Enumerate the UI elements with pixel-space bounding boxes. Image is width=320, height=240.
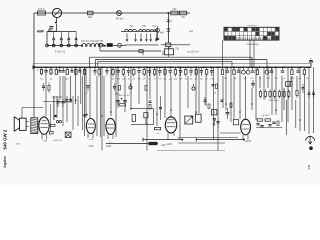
capacitor extra x303 — [302, 87, 305, 89]
IF tube V2 grid lines — [88, 123, 95, 125]
table bottom tick row — [224, 37, 226, 39]
svg-text:TΩ: TΩ — [200, 79, 203, 81]
wire tap collector line — [125, 44, 159, 46]
resistor R5 with capacitor under bus left — [41, 67, 43, 69]
wire coil taps down with arrows — [126, 34, 128, 41]
svg-text:40Ω: 40Ω — [173, 79, 177, 81]
capacitor extra smoothing a — [257, 123, 260, 125]
trimmer capacitor circle — [118, 44, 122, 48]
wire lower tuning rail — [100, 50, 161, 52]
small circle contact pair — [56, 121, 58, 123]
volume potentiometer box with arrow — [185, 116, 193, 124]
component group right of table under bus — [222, 67, 224, 70]
resistor R8b box under bus — [83, 67, 85, 69]
junction dot far bottom right — [309, 146, 313, 150]
loudspeaker terminal detail — [26, 120, 29, 122]
switch box on lower rail — [139, 50, 143, 53]
wire drops from lower rail to bus — [142, 51, 144, 55]
svg-text:cw: cw — [109, 141, 112, 143]
component box B right — [286, 82, 291, 87]
wire nested rail 3 — [98, 61, 232, 63]
loudspeaker magnet body — [20, 118, 27, 130]
wire oscillator coil rail — [121, 30, 157, 32]
svg-text:ca 120 mA: ca 120 mA — [187, 51, 199, 54]
svg-text:ωω4ωε•μ: ωω4ωε•μ — [247, 25, 257, 27]
IF tube V2 envelope — [86, 119, 95, 134]
wire speaker top connections — [22, 108, 43, 119]
component box with X bottom — [65, 132, 71, 137]
svg-text:cw83: cw83 — [166, 143, 172, 146]
connector box on lower heater run — [149, 142, 157, 145]
paper background — [0, 0, 320, 185]
capacitor in coupling network — [144, 113, 148, 118]
resistor extra smoothing — [277, 121, 279, 125]
wire top-left vertical from mains input down to bus — [33, 13, 35, 68]
wires right of output tube — [50, 104, 52, 131]
svg-text:TW: TW — [158, 79, 161, 81]
switch contact upper — [50, 26, 54, 28]
table feed wires down to bus — [249, 40, 251, 67]
wire network bottom — [131, 123, 154, 125]
resistor R8 box under bus — [75, 67, 77, 69]
detector tube V3 envelope — [106, 118, 115, 134]
capacitor C7c under bus — [71, 67, 73, 70]
wire faint long rail — [33, 63, 311, 65]
coil L4 humps group 2 — [139, 29, 150, 31]
wire lamp stem down — [56, 18, 58, 23]
resistor row lower right — [260, 90, 262, 92]
resistor R-mains 420 on top line — [179, 11, 186, 15]
svg-text:0,5 A: 0,5 A — [38, 7, 44, 11]
svg-text:HF w/e: HF w/e — [116, 18, 124, 21]
lamp dial indicator circle on top line — [52, 8, 61, 17]
valve data table grid top right — [224, 27, 279, 40]
band switch arm 2 with arrow — [60, 39, 62, 46]
capacitor pair right edge — [308, 90, 310, 98]
second row cluster b — [129, 86, 132, 89]
fuse Si 0,5A on top line — [38, 11, 46, 15]
wire band selector top rail — [47, 31, 76, 33]
capacitor C right mid — [251, 83, 255, 85]
wire trimmer to tuning line — [122, 44, 127, 46]
junction dots tube row — [101, 115, 103, 117]
resistor horizontal left of IF tube — [50, 124, 55, 126]
mains aerial symbol right end of bus — [310, 60, 312, 67]
coil L5 humps group 3 — [150, 30, 157, 32]
wire band chain horizontal — [47, 45, 82, 47]
svg-text:Ω: Ω — [37, 69, 39, 72]
electrolytic capacitor plus mark — [168, 19, 170, 21]
wire feed down to speaker transformer — [33, 67, 35, 117]
output tube V1 envelope — [39, 117, 49, 134]
component small above right — [212, 110, 217, 115]
svg-text:340: 340 — [307, 164, 311, 169]
wire top horizontal mains line — [34, 12, 190, 14]
coil L2 ferrite core filled block — [107, 43, 113, 47]
rectifier tube V5 plates — [242, 124, 249, 126]
variable capacitor C-var circle left — [99, 43, 103, 47]
antenna coupling capacitor on top line — [88, 11, 94, 15]
resistor R6 pair under bus — [50, 67, 52, 69]
wire vertical x160.5 with capacitor — [160, 96, 162, 120]
capacitor tuning gang plates — [156, 37, 159, 39]
detector tube V3 pins — [107, 134, 109, 139]
AF tube V4 pins — [167, 133, 169, 140]
grid resistor horizontal small — [66, 99, 72, 101]
svg-text:4kΩ: 4kΩ — [88, 16, 93, 19]
svg-text:GwB: GwB — [106, 145, 112, 148]
band switch arm 1 with arrow — [53, 39, 55, 46]
second row cluster d — [192, 87, 195, 90]
svg-text:540 GW 2: 540 GW 2 — [2, 129, 7, 149]
resistor single x297 — [296, 88, 298, 91]
capacitor block 2 left of rectifier — [233, 120, 238, 125]
output tube V1 cathode pins — [41, 134, 43, 140]
svg-text:+C: +C — [283, 78, 286, 80]
output tube V1 grid lines — [41, 123, 48, 125]
junction dot after coil chain — [104, 45, 106, 47]
capacitor C7 under bus — [59, 67, 61, 70]
svg-text:4 Tf: 4 Tf — [16, 144, 20, 146]
resistor right of pot — [195, 114, 201, 122]
capacitors above detector tube — [116, 100, 119, 102]
svg-text:TW: TW — [210, 79, 213, 81]
capacitor C5 under bus left — [45, 67, 47, 70]
long vertical wires from bus into stage area — [45, 76, 47, 116]
band switch contact circle 3 — [67, 44, 70, 47]
capacitor second-row left a — [42, 85, 45, 87]
AF tube V4 envelope — [165, 117, 176, 133]
junction blob a — [54, 115, 56, 117]
IF tube V2 pins — [87, 133, 89, 138]
band switch arm 3 with arrow — [68, 39, 70, 46]
svg-text:AMF: AMF — [37, 29, 45, 33]
wire from dropper area down to bus — [167, 47, 169, 58]
component comb row under main bus — [112, 67, 114, 69]
components on vertical left of AF tube — [149, 100, 152, 102]
wire rail1 right corner down — [251, 57, 253, 67]
resistor R-mains 240 on top line — [171, 11, 178, 15]
capacitors right cluster before rectifier — [213, 118, 216, 120]
detector tube V3 grid lines — [107, 123, 114, 125]
capacitor C7b under bus — [62, 67, 64, 70]
junction dot top line right — [167, 12, 169, 14]
wire tube D to rectifier heater link — [178, 137, 238, 139]
wire transformer to output tube — [38, 121, 40, 123]
svg-text:400Ω 40: 400Ω 40 — [53, 140, 62, 142]
svg-text:ΩΩ: ΩΩ — [65, 79, 69, 81]
rectifier tube V5 envelope — [241, 119, 251, 135]
resistor R7b under bus — [66, 67, 68, 69]
rectifier tube V5 pins — [242, 135, 244, 140]
table filled cells checker pattern — [224, 28, 227, 32]
svg-text:TΩ: TΩ — [224, 78, 227, 80]
output transformer winding hatched — [31, 118, 38, 134]
wire heater line segment left — [143, 139, 182, 141]
capacitor small x222 — [221, 99, 224, 101]
wire band selector left drop — [46, 32, 48, 46]
svg-text:cwB: cwB — [161, 145, 166, 147]
capacitor extra smoothing b — [269, 124, 272, 126]
svg-text:TΩ: TΩ — [40, 79, 43, 81]
svg-text:400 40Ω 40,8: 400 40Ω 40,8 — [60, 102, 73, 104]
resistor in coupling network — [132, 115, 135, 122]
HF choke lamp symbol on top line — [117, 11, 122, 16]
component small box right of output tube — [49, 131, 53, 134]
bus junction dots — [45, 66, 47, 68]
capacitor under bus x95 — [94, 67, 96, 70]
capacitor C8b under bus — [79, 67, 81, 70]
svg-text:4 GF: 4 GF — [88, 145, 94, 148]
bus left terminal marks — [34, 66, 36, 68]
resistor extra x291 — [290, 82, 292, 87]
svg-text:40Ω 4Ω 8 μ: 40Ω 4Ω 8 μ — [269, 100, 280, 102]
svg-text:4 Gw 4,5: 4 Gw 4,5 — [55, 50, 66, 53]
coil L1 junction circles — [81, 45, 83, 47]
resistor small left of AF tube — [154, 127, 160, 129]
svg-text:4μF: 4μF — [160, 33, 165, 35]
svg-text:TW: TW — [179, 79, 182, 81]
svg-text:O O: O O — [250, 78, 254, 80]
svg-text:+: + — [170, 19, 172, 23]
band switch contact circle 2 — [60, 44, 63, 47]
svg-text:4Ω: 4Ω — [112, 79, 115, 81]
resistor small x231 — [230, 103, 232, 107]
resistor horizontal above tubes — [120, 104, 126, 106]
resistor second-row left b — [48, 86, 50, 91]
junction dot below lamp — [55, 22, 57, 24]
wire grid stub a — [43, 101, 62, 103]
wire switch to band selector — [52, 24, 57, 31]
capacitor small x205 — [204, 99, 207, 101]
lamp inner mark — [55, 11, 60, 16]
resistor R7 box under bus — [55, 67, 57, 69]
svg-text:u4CB: u4CB — [245, 141, 251, 143]
loudspeaker cone — [14, 117, 19, 131]
svg-text:478 470 470 400 TW: 478 470 470 400 TW — [81, 40, 104, 43]
wire tuning gang drop — [157, 26, 159, 40]
svg-text:ωωωεμα•μμ: ωωωεμα•μμ — [246, 44, 259, 46]
wire mid horizontal joining stage — [178, 142, 225, 144]
capacitor box below dropper line — [165, 49, 174, 55]
capacitor C-block bottom right of top section — [166, 43, 171, 47]
coupling capacitors row between output tube and IF tube — [56, 101, 59, 103]
wire faint lower rail — [157, 150, 225, 152]
extra vertical wires curtain between output and IF tubes — [53, 96, 55, 120]
headphone jack symbol bottom right — [306, 136, 315, 140]
second row cluster c — [145, 86, 147, 91]
wire into rectifier from left — [220, 132, 241, 134]
svg-text:u uB: u uB — [89, 139, 94, 141]
switch contact lower — [48, 29, 52, 31]
wire heater line segment right — [196, 139, 244, 141]
svg-text:240: 240 — [172, 8, 177, 11]
coil L1 antenna hump chain — [82, 44, 104, 46]
capacitor under bus x107 — [106, 67, 108, 70]
capacitor C8 small under bus — [87, 85, 90, 87]
wire nested rail 1 — [90, 56, 253, 58]
capacitor block left of rectifier — [226, 112, 230, 114]
svg-text:Ingelen: Ingelen — [3, 156, 7, 168]
resistor small x209 — [208, 104, 210, 108]
svg-text:4Ω: 4Ω — [50, 79, 53, 81]
wire main HT bus — [33, 66, 311, 68]
svg-text:4μ 40Ω T: 4μ 40Ω T — [262, 115, 271, 117]
band switch contact circle 1 — [52, 44, 55, 47]
wire after core — [113, 45, 117, 47]
band switch contact circle 4 — [75, 44, 78, 47]
wire lower heater run left — [106, 143, 158, 145]
resistor under bus x99 — [98, 67, 100, 69]
second row cluster a — [113, 86, 116, 88]
smoothing network right of rectifier — [257, 119, 262, 121]
wire bottom of dropper section — [161, 44, 190, 46]
wires right stage verticals — [285, 100, 287, 135]
coil L3 humps group 1 — [125, 29, 137, 31]
band switch arm 4 with arrow — [75, 39, 77, 46]
band switch contact circle leftmost — [46, 44, 49, 47]
wire dropper vertical right — [167, 13, 169, 44]
tuning gang variable capacitor circle — [156, 29, 160, 33]
wire grid stub b — [52, 96, 62, 98]
svg-text:40Ω TW 4μ: 40Ω TW 4μ — [119, 95, 130, 97]
AF tube V4 grid lines — [167, 122, 176, 124]
AF coupling network box outline — [130, 109, 153, 125]
wire left drop from trimmer zone — [99, 45, 101, 51]
junction blob b — [83, 114, 85, 116]
wire nested rail 2 — [95, 59, 267, 61]
second row cluster e — [212, 84, 215, 86]
